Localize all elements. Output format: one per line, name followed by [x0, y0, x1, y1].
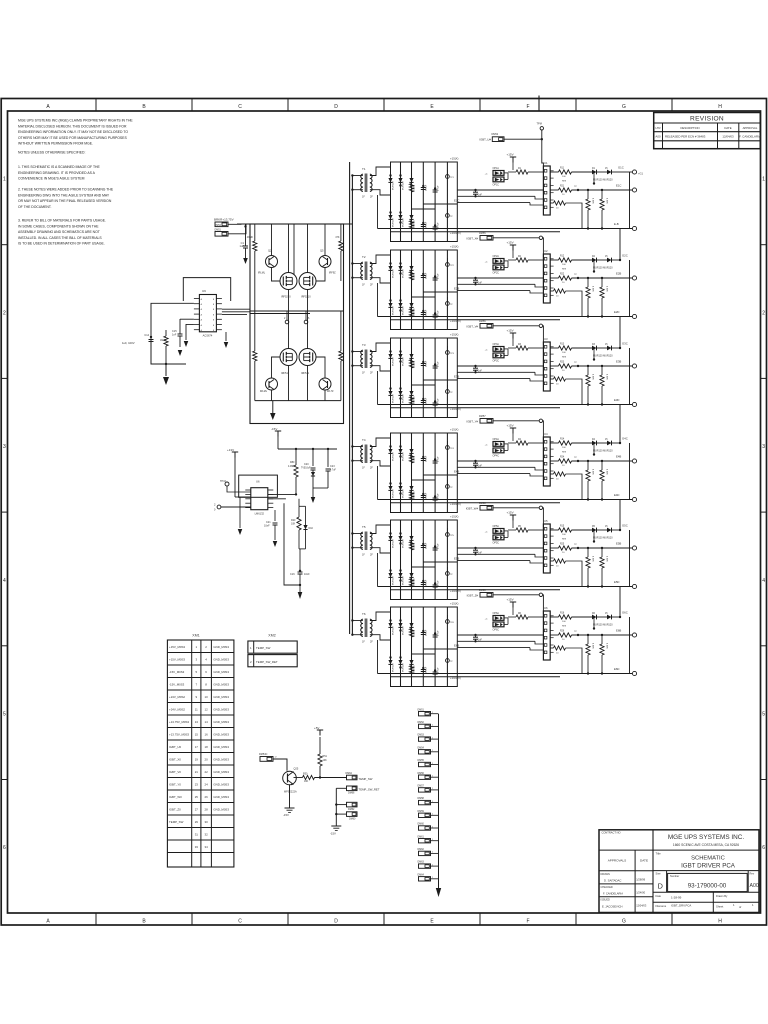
svg-text:+15(X): +15(X) [450, 333, 459, 337]
proprietary notice text [18, 119, 133, 146]
svg-text:GND_M0S3: GND_M0S3 [213, 733, 229, 737]
svg-text:22: 22 [204, 770, 208, 774]
svg-text:OP5A: OP5A [493, 525, 500, 528]
svg-text:GND_M0S3: GND_M0S3 [213, 795, 229, 799]
svg-text:D6: D6 [592, 613, 596, 615]
resistor RL1 channel 2 4.99K [586, 277, 594, 318]
resistor RE channel 4 [550, 457, 632, 468]
terminal E channel 5 [616, 542, 637, 551]
svg-text:+15V_M0S3: +15V_M0S3 [169, 645, 185, 649]
svg-text:E3B: E3B [616, 360, 621, 364]
svg-text:MUR120: MUR120 [393, 269, 395, 278]
svg-text:TEMP_SW: TEMP_SW [169, 820, 184, 824]
resistor RG channel 6 [550, 613, 592, 628]
svg-text:RELEASED PER ECN # 36483: RELEASED PER ECN # 36483 [665, 135, 706, 139]
svg-text:6: 6 [205, 670, 207, 674]
svg-text:E2D: E2D [614, 310, 619, 314]
svg-text:IGBT_U0: IGBT_U0 [169, 745, 181, 749]
wire Q2 to M1 gate [272, 268, 281, 282]
testpoint channel 1 upper [446, 170, 455, 179]
svg-text:B: B [142, 104, 146, 110]
svg-text:E3D: E3D [614, 398, 619, 402]
svg-text:10: 10 [556, 653, 559, 655]
testpoint TPM top [537, 123, 544, 131]
net label +10 channel 3 [450, 407, 461, 411]
wire channel 3 return [377, 371, 379, 405]
svg-text:TEMP_SW: TEMP_SW [256, 646, 271, 650]
resistor R80 4.99K [288, 449, 298, 496]
svg-text:1: 1 [432, 776, 433, 778]
svg-text:INSTALLED. IN ALL CASES THE BI: INSTALLED. IN ALL CASES THE BILL OF MATE… [18, 236, 102, 240]
svg-text:+24V_M0S2: +24V_M0S2 [169, 695, 185, 699]
svg-text:E5B: E5B [454, 557, 459, 561]
rectifier diodes channel 6 bottom row [388, 656, 413, 668]
svg-text:MUR120: MUR120 [403, 394, 405, 403]
svg-text:Q5: Q5 [320, 249, 324, 253]
svg-text:+15V: +15V [507, 424, 514, 428]
svg-text:IRF9Z: IRF9Z [329, 272, 336, 275]
wire G-to-B vertical channel 2 [629, 260, 631, 317]
svg-text:IGBT_Y0: IGBT_Y0 [169, 783, 181, 787]
svg-text:13: 13 [195, 720, 199, 724]
svg-text:GND_M0S3: GND_M0S3 [213, 720, 229, 724]
svg-text:1. THIS SCHEMATIC IS A SCANNED: 1. THIS SCHEMATIC IS A SCANNED IMAGE OF … [18, 165, 101, 169]
testpoint TP9 channel 1 [574, 186, 579, 191]
svg-text:TP: TP [450, 392, 453, 394]
svg-text:Q25: Q25 [294, 768, 299, 771]
svg-text:DRAWN: DRAWN [601, 873, 611, 876]
svg-text:1: 1 [250, 646, 252, 650]
bead DM57 [418, 785, 439, 793]
rectifier cluster channel 5 verticals [401, 520, 448, 600]
svg-text:93-179000-00: 93-179000-00 [688, 883, 727, 890]
resistor R51 pull-up [318, 737, 328, 778]
resistor RL2 channel 4 4.99K [600, 460, 608, 501]
svg-text:MUR120: MUR120 [403, 357, 405, 366]
svg-text:29: 29 [195, 820, 199, 824]
rectifier labels channel 6 top [393, 626, 440, 636]
terminal E channel 4 [616, 455, 637, 464]
svg-text:TP6: TP6 [450, 622, 455, 624]
svg-text:1N4745: 1N4745 [414, 220, 416, 228]
svg-text:Q2: Q2 [268, 249, 272, 253]
svg-text:REVISION: REVISION [690, 116, 724, 123]
svg-text:OP6A: OP6A [493, 612, 500, 615]
svg-text:G6C: G6C [622, 611, 628, 615]
optocoupler OP4 [485, 438, 508, 457]
wire U6 outputs right [268, 494, 296, 498]
op-amp U9 ACS674 controller [194, 289, 222, 338]
svg-text:MUR120: MUR120 [393, 489, 395, 498]
wire temp return to ground [330, 788, 341, 835]
svg-text:15: 15 [605, 613, 608, 615]
wire G row to terminal channel 1 [620, 171, 632, 173]
capacitor C16 10nF [290, 570, 310, 599]
svg-text:2: 2 [250, 660, 252, 664]
svg-text:DM61: DM61 [418, 835, 425, 838]
svg-text:1uF, 100V: 1uF, 100V [122, 341, 135, 345]
zone numbers right [762, 177, 765, 852]
rectifier labels channel 4 top [393, 452, 440, 462]
svg-text:1: 1 [432, 877, 433, 879]
rectifier cluster channel 2 box [391, 250, 458, 330]
svg-text:MUR120 MUR120: MUR120 MUR120 [593, 266, 613, 269]
svg-text:24: 24 [204, 783, 208, 787]
filter capacitors channel 5 [409, 542, 437, 588]
svg-text:OP3C: OP3C [493, 359, 500, 362]
label MUR120 channel 2 [593, 260, 613, 273]
diode D4B [592, 439, 620, 446]
svg-text:MUR120: MUR120 [393, 306, 395, 315]
svg-text:A: A [201, 308, 203, 311]
svg-text:MUR120: MUR120 [403, 452, 405, 461]
svg-text:5: 5 [3, 712, 6, 718]
zone letters bottom [46, 918, 722, 924]
wire G-to-B vertical channel 6 [629, 617, 631, 674]
svg-text:4.99K: 4.99K [606, 286, 608, 292]
net label +10 channel 6 [450, 676, 461, 680]
svg-text:10nF: 10nF [304, 573, 310, 576]
svg-text:+15V: +15V [507, 153, 514, 157]
wire G row up channel 2 [619, 229, 628, 262]
optocoupler OP1 [485, 167, 508, 186]
op-amp U6 regulator enclosure [239, 475, 278, 497]
svg-text:2. THESE NOTES WERE ADDED PRIO: 2. THESE NOTES WERE ADDED PRIOR TO SCANN… [18, 188, 114, 192]
connector DM65 TEMP_SW_RET [336, 786, 379, 795]
svg-text:15: 15 [605, 439, 608, 441]
resistor R5 channel 4 [508, 439, 543, 445]
svg-text:31: 31 [195, 833, 199, 837]
capacitor C15 1nF [172, 319, 183, 356]
svg-text:1nF: 1nF [478, 195, 483, 197]
svg-text:10: 10 [562, 552, 565, 554]
svg-text:2: 2 [3, 310, 6, 316]
svg-text:G2C: G2C [622, 254, 628, 258]
svg-text:1F: 1F [362, 196, 365, 199]
svg-text:IGBT_V0: IGBT_V0 [169, 770, 181, 774]
svg-text:IGBT_DRV.PCA: IGBT_DRV.PCA [671, 904, 691, 908]
note 1 [18, 165, 101, 181]
svg-text:C20: C20 [304, 463, 309, 466]
svg-text:G5C: G5C [622, 524, 628, 528]
svg-text:GND_M0S3: GND_M0S3 [213, 770, 229, 774]
testpoint TP2 phase [284, 311, 289, 324]
svg-text:B: B [213, 314, 215, 316]
MOSFET Q6 IRF511 [280, 311, 297, 401]
svg-text:+15(X): +15(X) [450, 157, 459, 161]
svg-text:5: 5 [762, 712, 765, 718]
svg-text:15: 15 [605, 526, 608, 528]
resistor R5 channel 6 [508, 613, 543, 619]
wire rectifier to IC channel 1 [457, 190, 543, 205]
testpoint TP9 channel 4 [574, 457, 579, 462]
svg-text:GND_M0S3: GND_M0S3 [213, 683, 229, 687]
rectifier diodes channel 3 bottom row [388, 387, 413, 399]
svg-text:D4: D4 [592, 439, 596, 441]
svg-text:6: 6 [762, 845, 765, 851]
svg-text:G: G [622, 104, 626, 110]
svg-text:21: 21 [195, 770, 199, 774]
svg-text:E6B: E6B [616, 629, 621, 633]
svg-text:MUR120: MUR120 [393, 218, 395, 227]
svg-text:WITHOUT WRITTEN PERMISSION FRO: WITHOUT WRITTEN PERMISSION FROM MGE. [18, 142, 93, 146]
svg-text:A: A [46, 104, 50, 110]
svg-text:H: H [718, 918, 722, 924]
svg-text:GND_M0S3: GND_M0S3 [213, 783, 229, 787]
svg-text:100: 100 [562, 176, 566, 178]
wire G-to-B vertical channel 3 [629, 348, 631, 405]
svg-text:100: 100 [562, 534, 566, 536]
svg-text:16: 16 [204, 733, 208, 737]
svg-text:1: 1 [195, 645, 197, 649]
note 2 [18, 188, 114, 209]
wire T3 secondary to rectifier [370, 343, 391, 371]
svg-text:19: 19 [195, 758, 199, 762]
wire reg bottom stub [284, 503, 301, 586]
terminal E channel 6 [616, 629, 637, 638]
svg-text:DM60: DM60 [418, 823, 425, 826]
terminal B channel 1 [614, 222, 637, 230]
svg-text:4.99K: 4.99K [606, 643, 608, 649]
connector DM54 +13.75V input [214, 218, 241, 227]
svg-text:IN SOME CASES, COMPONENTS SHOW: IN SOME CASES, COMPONENTS SHOWN ON THE [18, 224, 99, 228]
transformer T4 [361, 438, 374, 470]
svg-text:+15(X): +15(X) [450, 245, 459, 249]
svg-text:1N4745: 1N4745 [414, 665, 416, 673]
svg-text:1: 1 [432, 852, 433, 854]
connector DM60 [335, 812, 357, 821]
resistor RG channel 2 [550, 256, 592, 271]
testpoint channel 3 upper [446, 346, 455, 355]
svg-text:-15V_M0S3: -15V_M0S3 [169, 683, 185, 687]
resistor RL2 channel 1 4.99K [600, 189, 608, 230]
wire G row up channel 4 [619, 405, 628, 445]
svg-text:OR MAY NOT APPEAR IN THE FINAL: OR MAY NOT APPEAR IN THE FINAL RELEASED … [18, 199, 112, 203]
MOSFET Q3 IRF5210 [280, 224, 297, 311]
svg-text:1N4745: 1N4745 [414, 491, 416, 499]
svg-text:G: G [622, 918, 626, 924]
svg-text:0: 0 [214, 509, 216, 512]
svg-text:E4B: E4B [454, 470, 459, 474]
svg-text:E1C: E1C [616, 184, 621, 188]
svg-text:TP4: TP4 [450, 448, 455, 450]
wire B row channel 6 [378, 674, 633, 677]
svg-text:R24: R24 [560, 457, 565, 459]
rectifier labels channel 2 bottom [393, 306, 440, 316]
terminal E channel 3 [616, 360, 637, 369]
svg-text:IGBT_Z0: IGBT_Z0 [169, 808, 181, 812]
svg-text:Size: Size [656, 872, 662, 876]
svg-text:Filename: Filename [656, 904, 667, 908]
rectifier labels channel 1 top [393, 181, 440, 191]
svg-text:MUR120: MUR120 [393, 357, 395, 366]
rectifier labels channel 4 bottom [393, 489, 440, 499]
zone row dividers left strip [1, 245, 7, 780]
bead DM63 [418, 861, 439, 869]
zone numbers left [3, 177, 6, 852]
svg-text:E. JACOSEVICH: E. JACOSEVICH [602, 904, 623, 908]
svg-text:TP: TP [450, 304, 453, 306]
svg-text:DESCRIPTION: DESCRIPTION [680, 126, 699, 130]
wire bus to T6 primary [351, 619, 363, 636]
cluster mid rails channel 3 [412, 380, 458, 385]
svg-text:DM58: DM58 [479, 502, 486, 505]
net label +15 channel 4 [450, 428, 459, 432]
svg-text:1: 1 [432, 737, 433, 739]
svg-text:1: 1 [432, 801, 433, 803]
svg-text:MATERIAL DISCLOSED HEREON. THI: MATERIAL DISCLOSED HEREON. THIS DOCUMENT… [18, 124, 127, 128]
label MUR120 channel 5 [593, 530, 613, 543]
net label E channel 3 [454, 375, 459, 379]
svg-text:T1: T1 [362, 167, 366, 171]
svg-text:4.99K: 4.99K [592, 643, 594, 649]
svg-text:T6: T6 [362, 612, 366, 616]
rectifier diodes channel 1 top row [388, 174, 413, 186]
diode D4A [592, 441, 607, 446]
resistor RB channel 5 [550, 559, 582, 587]
svg-text:TP: TP [574, 457, 577, 459]
optocoupler OP5 [485, 525, 508, 544]
svg-text:ISSUED: ISSUED [601, 899, 611, 902]
svg-text:OP2A: OP2A [493, 255, 500, 258]
svg-text:XM1: XM1 [192, 634, 199, 638]
net label +15 channel 1 [450, 157, 459, 161]
rectifier cluster channel 5 box [391, 520, 458, 600]
rectifier cluster channel 4 verticals [401, 433, 448, 513]
svg-text:IGBT_V#: IGBT_V# [466, 325, 478, 329]
svg-text:1: 1 [432, 750, 433, 752]
primary supply bus [343, 162, 352, 634]
svg-text:D10: D10 [309, 527, 314, 530]
wire T1 secondary to rectifier [370, 167, 391, 195]
wire T5 secondary to rectifier [370, 525, 391, 553]
zone column dividers top strip [96, 99, 672, 112]
svg-text:TP3: TP3 [450, 353, 455, 355]
diode D2B [592, 256, 620, 263]
svg-text:XM2: XM2 [268, 634, 275, 638]
wire M2 gate feed [293, 224, 295, 275]
svg-text:4.7uF: 4.7uF [330, 470, 336, 472]
net label +10 channel 2 [450, 319, 461, 323]
svg-text:MUR120: MUR120 [403, 663, 405, 672]
diode D3B [592, 344, 620, 351]
svg-text:OTHERS NOR MAY IT BE USED FOR: OTHERS NOR MAY IT BE USED FOR MANUFACTUR… [18, 136, 127, 140]
svg-text:+15(X): +15(X) [450, 428, 459, 432]
svg-text:RES: RES [562, 356, 567, 358]
svg-text:A: A [46, 918, 50, 924]
svg-text:A00: A00 [655, 135, 661, 139]
svg-text:A: A [201, 313, 203, 316]
connector table XM1 [167, 634, 234, 868]
svg-text:D1: D1 [592, 168, 596, 170]
wire +13V feed [235, 458, 251, 498]
svg-text:49.9K: 49.9K [160, 338, 167, 342]
svg-text:2F: 2F [370, 196, 373, 199]
cluster mid rails channel 4 [412, 475, 458, 480]
testpoint channel 1 lower [446, 209, 454, 218]
svg-text:DM56: DM56 [479, 320, 486, 323]
cluster mid rails channel 2 [412, 292, 458, 297]
bead chain vertical bus [436, 714, 441, 897]
gate driver IC U3 [543, 337, 553, 391]
svg-text:G1C: G1C [618, 166, 624, 170]
testpoint TP9 channel 2 [574, 274, 579, 279]
rectifier cluster channel 2 verticals [401, 250, 448, 330]
bead DM61 [418, 835, 439, 843]
svg-text:GND_M0S3: GND_M0S3 [213, 745, 229, 749]
scan fold mark top [538, 96, 540, 112]
svg-text:OF THE DOCUMENT.: OF THE DOCUMENT. [18, 205, 52, 209]
capacitor C20 470uF [301, 449, 316, 503]
resistor RE channel 1 [550, 186, 632, 197]
svg-text:10: 10 [562, 465, 565, 467]
svg-text:Rev: Rev [750, 872, 755, 876]
resistor R2 47K [335, 224, 343, 281]
filter capacitors channel 2 [409, 272, 437, 318]
svg-text:5: 5 [195, 670, 197, 674]
svg-text:100: 100 [562, 264, 566, 266]
svg-text:49.9K: 49.9K [247, 236, 254, 239]
svg-text:2F: 2F [370, 284, 373, 287]
svg-text:DATE: DATE [724, 126, 731, 130]
zone column dividers bottom strip [96, 913, 672, 925]
resistor RB channel 2 [550, 289, 582, 317]
svg-text:CONTRACT NO: CONTRACT NO [602, 831, 621, 835]
svg-text:T5: T5 [362, 525, 366, 529]
revision table [654, 113, 761, 149]
net label E channel 2 [454, 287, 459, 291]
svg-text:4.99K: 4.99K [592, 198, 594, 204]
ground main left [163, 364, 169, 385]
wire rectifier to IC channel 3 [457, 366, 543, 381]
svg-text:MUR120: MUR120 [393, 181, 395, 190]
svg-text:10: 10 [556, 384, 559, 386]
resistor RE channel 3 [550, 362, 632, 373]
bead DM54 [418, 746, 439, 754]
resistor R5 channel 3 [508, 344, 543, 350]
svg-text:3. REFER TO BILL OF MATERIALS: 3. REFER TO BILL OF MATERIALS FOR PARTS … [18, 219, 106, 223]
svg-text:4.99K: 4.99K [606, 198, 608, 204]
resistor R14 49.9K [160, 330, 168, 365]
power flag +15V channel 5 [507, 511, 517, 528]
svg-text:3: 3 [195, 658, 197, 662]
svg-text:+C: +C [485, 445, 488, 447]
svg-text:1: 1 [432, 712, 433, 714]
svg-text:4.99K: 4.99K [606, 374, 608, 380]
testpoint TP9 channel 6 [574, 631, 579, 636]
resistor R5 channel 2 [508, 256, 543, 262]
svg-text:OP3A: OP3A [493, 343, 500, 346]
filter capacitors channel 1 [409, 184, 437, 230]
svg-text:1N4745: 1N4745 [414, 578, 416, 586]
svg-text:1: 1 [752, 903, 754, 907]
svg-text:4.99K: 4.99K [592, 556, 594, 562]
svg-text:D: D [334, 104, 338, 110]
svg-text:C: C [238, 104, 242, 110]
svg-text:2x49K: 2x49K [414, 360, 416, 367]
optocoupler OP3 [485, 343, 508, 362]
svg-text:R13: R13 [560, 344, 565, 346]
resistor RL2 channel 6 4.99K [600, 634, 608, 675]
svg-text:4.99K: 4.99K [592, 374, 594, 380]
svg-text:IRF5210: IRF5210 [281, 296, 291, 299]
rectifier diodes channel 6 top row [388, 619, 413, 631]
svg-text:R51: R51 [323, 755, 328, 758]
svg-text:U1: U1 [544, 161, 548, 165]
svg-text:T4: T4 [362, 438, 366, 442]
testpoint TP9 channel 5 [574, 544, 579, 549]
label MUR120 channel 6 [593, 617, 613, 630]
